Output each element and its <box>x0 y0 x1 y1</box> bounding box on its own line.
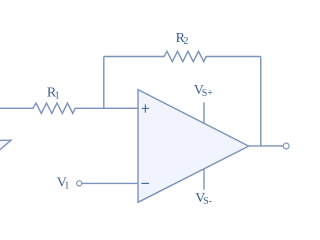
svg-text:VS-: VS- <box>195 191 212 207</box>
svg-text:VS+: VS+ <box>194 83 213 99</box>
svg-text:R1: R1 <box>47 86 60 102</box>
svg-text:V1: V1 <box>57 176 70 192</box>
svg-text:R2: R2 <box>176 31 189 47</box>
